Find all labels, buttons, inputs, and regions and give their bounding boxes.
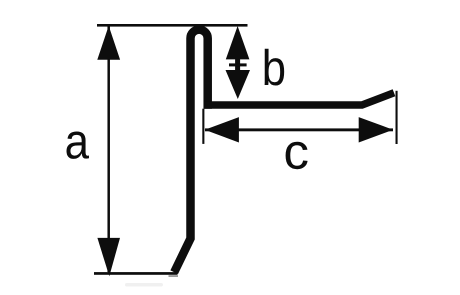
dimension a bottom arrowhead xyxy=(97,238,120,276)
dimension c left arrowhead xyxy=(205,117,239,142)
dimension c shaft xyxy=(205,128,393,131)
dimension a shaft xyxy=(107,26,110,272)
dimension b top arrowhead xyxy=(226,26,250,59)
faint smudge under baseline xyxy=(125,283,163,287)
bottom reference line xyxy=(94,272,178,275)
dimension b crossbar xyxy=(229,63,247,66)
dimension b bottom arrowhead xyxy=(226,70,251,99)
dimension c right extension line xyxy=(396,91,398,144)
dimension a top arrowhead xyxy=(97,26,120,60)
dimension c left extension line xyxy=(202,109,204,144)
profile: hooked vertical with bottom foot xyxy=(174,30,208,273)
label b xyxy=(265,49,285,86)
label c xyxy=(286,142,308,169)
profile: horizontal leg with flared right end xyxy=(204,93,395,105)
gray tick under foot xyxy=(169,275,179,277)
dimension b shaft xyxy=(235,57,240,72)
top reference line xyxy=(97,24,248,27)
dimension c right arrowhead xyxy=(359,117,394,142)
label a xyxy=(66,132,88,159)
